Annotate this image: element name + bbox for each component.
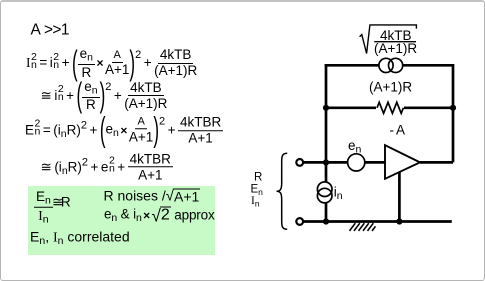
op-amp -A (385, 145, 420, 179)
green box ~= R (52, 195, 71, 209)
svg-text:R: R (254, 172, 262, 184)
current noise source in (317, 182, 332, 203)
green box: R noises / sqrt(A+1) (104, 188, 201, 203)
resistor (A+1)R zigzag (376, 101, 404, 115)
node: condition A>>1 (31, 22, 69, 38)
wire: resistor row (326, 106, 453, 109)
voltage noise source en (348, 154, 365, 171)
green note box (28, 186, 215, 255)
wire: amplifier input row (303, 161, 385, 164)
equation 4: ~= (inR)^2 + en^2 + 4kTBR/(A+1) (41, 152, 173, 182)
wire: top feedback loop (325, 64, 453, 67)
brace for port labels (277, 153, 288, 229)
label sqrt(4kTB/(A+1)R) (374, 28, 417, 56)
ground symbol (350, 223, 376, 231)
green box: en & in x sqrt2 approx (104, 207, 215, 224)
svg-text:-A: -A (390, 123, 408, 138)
junction dot resistor left (323, 105, 329, 111)
terminal top (296, 159, 303, 166)
svg-text:In: In (251, 195, 260, 209)
wire: left rail (325, 64, 328, 222)
junction dot amplifier pin (396, 218, 402, 224)
green box: En, In correlated (30, 230, 130, 247)
svg-text:(A+1)R: (A+1)R (374, 41, 417, 56)
terminal bottom (296, 218, 303, 225)
junction dot input row (323, 159, 329, 165)
port labels R En In (251, 172, 264, 209)
equation 1: In^2 = in^2 + (en/R x A/(A+1))^2 + 4kTB/((A+1)R) (26, 47, 197, 79)
svg-text:(A+1)R: (A+1)R (369, 80, 412, 95)
wire: right rail (452, 64, 455, 162)
wire: amplifier output (420, 161, 453, 164)
svg-text:en: en (348, 138, 362, 156)
svg-text:in: in (334, 185, 343, 203)
junction dot bottom left (323, 218, 329, 224)
equation 3: En^2 = (inR)^2 + (en x A/(A+1))^2 + 4kTBR/(A+1) (25, 115, 223, 145)
wire: amplifier ground pin (398, 172, 401, 222)
green box fraction En/In (34, 190, 53, 225)
equation 2: ~= in^2 + (en/R)^2 + 4kTB/((A+1)R) (41, 80, 168, 112)
junction dot resistor right (450, 105, 456, 111)
wire: bottom rail (303, 220, 452, 223)
noise source N1 thermal noise (379, 58, 403, 72)
